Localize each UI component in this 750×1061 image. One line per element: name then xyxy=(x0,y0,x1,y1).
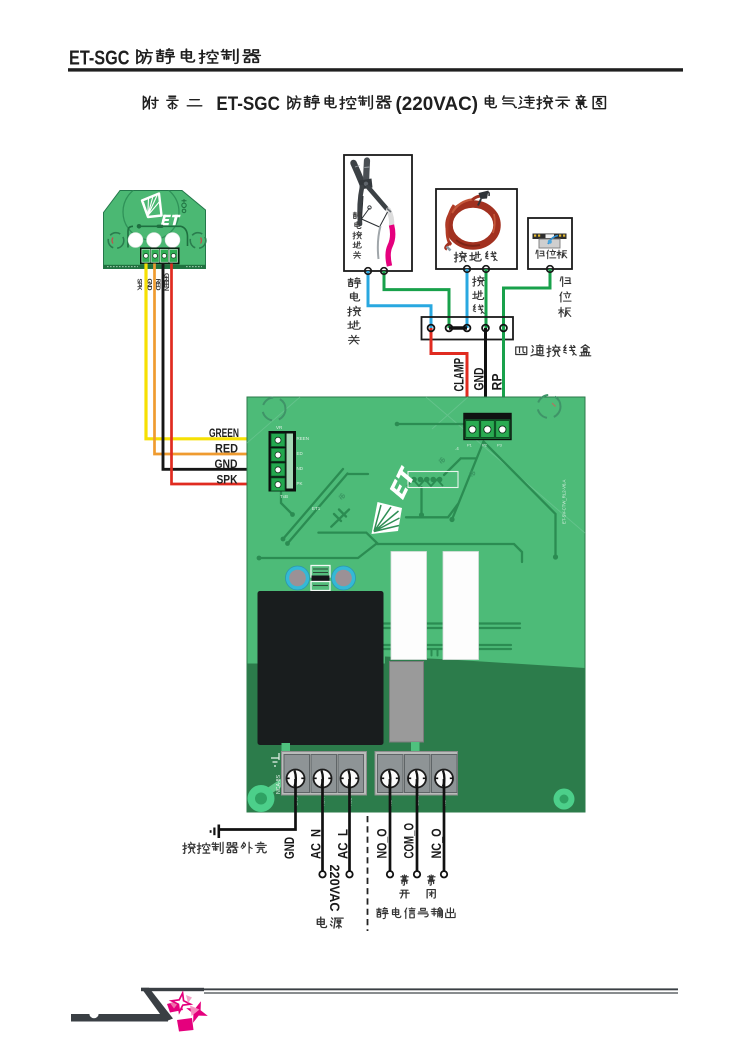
label connect to controller housing xyxy=(183,842,266,853)
footer thick bar xyxy=(71,1014,168,1022)
svg-text:NO_O: NO_O xyxy=(374,828,390,858)
label power source xyxy=(317,917,343,928)
svg-text:.4: .4 xyxy=(455,446,459,451)
wire yellow sensor SPK to PCB GREEN xyxy=(146,264,267,439)
wire AC_N down xyxy=(321,779,324,871)
svg-text:REEN: REEN xyxy=(297,436,310,441)
label four-way junction box xyxy=(516,345,591,357)
header rule xyxy=(68,68,683,71)
PCB dark lower band xyxy=(247,664,385,813)
wire COM down xyxy=(416,779,419,871)
silkscreen tiny texts xyxy=(276,425,567,524)
svg-text:GREEN: GREEN xyxy=(209,426,239,440)
svg-text:TxB: TxB xyxy=(280,494,288,499)
terminal cell xyxy=(284,755,310,793)
power terminal block frame xyxy=(282,752,367,796)
green stems xyxy=(282,743,291,753)
sensor LED 1 xyxy=(128,233,143,248)
wire green clamp to junction hole2 xyxy=(384,271,449,328)
chassis ground symbol xyxy=(211,825,219,839)
terminal screw xyxy=(435,770,453,788)
svg-text:ET-SGC: ET-SGC xyxy=(216,94,280,115)
wire NC down xyxy=(443,779,446,871)
PCB mounting hole bottom-left xyxy=(266,781,284,793)
terminal screw xyxy=(408,770,426,788)
sensor board bottom edge xyxy=(104,265,206,269)
label normally closed xyxy=(427,875,435,898)
sensor terminal block J1 xyxy=(141,248,180,264)
svg-text:RED: RED xyxy=(215,441,238,455)
junction hole xyxy=(482,325,489,332)
silkscreen outline box xyxy=(408,472,458,488)
terminal cell xyxy=(432,755,458,793)
junction jumper bar hole2-hole3 xyxy=(449,326,467,330)
terminal cell xyxy=(338,755,364,793)
box static grounding clamp xyxy=(344,155,412,271)
dashed separator xyxy=(367,816,369,931)
box grounding wire xyxy=(436,189,517,269)
svg-text:ET-SGC: ET-SGC xyxy=(69,46,130,69)
junction hole xyxy=(464,325,471,332)
footer diagonal xyxy=(141,988,173,1022)
main PCB board xyxy=(247,397,585,812)
svg-text:COM_O: COM_O xyxy=(401,823,417,859)
svg-text:ET-SV-CTW_RL2-V6.A: ET-SV-CTW_RL2-V6.A xyxy=(562,479,567,524)
sensor ET logo text xyxy=(161,215,181,225)
svg-text:P2: P2 xyxy=(482,443,488,448)
wire AC_L down xyxy=(348,779,351,871)
reset plate drawing xyxy=(533,234,567,249)
relay terminal block frame xyxy=(375,752,458,796)
terminal screw xyxy=(341,770,359,788)
terminal cell xyxy=(405,755,431,793)
PCB mounting ring top-right xyxy=(538,395,561,418)
wire red sensor GREEN to PCB SPK xyxy=(172,264,268,485)
label normally open xyxy=(400,875,409,898)
footer rule lines xyxy=(141,988,204,991)
svg-text:AC_L: AC_L xyxy=(335,829,351,859)
box reset plate xyxy=(528,218,572,269)
wire GND to chassis xyxy=(220,779,296,830)
terminal dot on ground-wire box xyxy=(483,266,490,273)
four-way junction box xyxy=(422,317,514,340)
ET logo sail on PCB xyxy=(372,502,403,534)
sensor trace above LEDs xyxy=(128,226,188,247)
wire green ground-wire to junction hole4 xyxy=(485,269,488,328)
sensor LED 2 xyxy=(147,233,162,248)
svg-text:GND: GND xyxy=(471,368,487,391)
terminal cell xyxy=(378,755,404,793)
label jing-dian-jie-di-jia column xyxy=(348,278,361,344)
PCB mounting hole bottom-right xyxy=(554,789,575,810)
clamp drawing xyxy=(354,161,393,267)
PCB silkscreen ground mark xyxy=(271,753,279,766)
svg-text:ND: ND xyxy=(297,466,304,471)
diode D1 xyxy=(311,566,330,578)
wire black sensor RED to PCB GND xyxy=(163,264,267,470)
sensor alarm board xyxy=(104,191,206,269)
sensor left mounting ring xyxy=(108,233,124,249)
PCB sheen diagonals xyxy=(247,397,585,533)
wire green junction hole5 to RP pin xyxy=(502,328,505,414)
junction hole xyxy=(500,325,507,332)
PCB left terminal J2 xyxy=(269,431,297,492)
sensor ET logo sail xyxy=(142,194,162,218)
terminal screw xyxy=(314,770,332,788)
terminal dot on reset plate box xyxy=(547,266,554,273)
junction hole xyxy=(428,325,435,332)
svg-text:GND: GND xyxy=(281,837,297,859)
wire green reset-plate to junction hole5 xyxy=(504,269,551,328)
sensor LED 3 xyxy=(165,233,180,248)
PCB top terminal CLAMP/GND/RP xyxy=(464,414,511,440)
wire blue clamp to junction hole1 xyxy=(368,271,431,328)
PCB traces xyxy=(259,424,556,656)
trace pads xyxy=(257,422,559,561)
pad crosses xyxy=(339,458,475,499)
svg-text:VR: VR xyxy=(276,425,283,430)
ET text on PCB xyxy=(390,465,415,500)
wire blue ground-wire to junction hole3 xyxy=(466,269,469,328)
subtitle appendix line xyxy=(143,96,201,109)
label jie-di-xian column xyxy=(473,276,485,313)
ground wire coil drawing xyxy=(446,191,497,251)
svg-text:NC_O: NC_O xyxy=(428,828,444,858)
wire black junction hole4 to GND pin xyxy=(484,328,487,414)
svg-text:PK: PK xyxy=(297,481,303,486)
heatsink gray block xyxy=(390,662,424,743)
svg-text:RP: RP xyxy=(489,374,505,391)
PCB mounting ring top-left xyxy=(263,398,286,421)
svg-text:P1: P1 xyxy=(467,443,473,448)
terminal dot on clamp box xyxy=(365,268,372,275)
svg-text:ET1: ET1 xyxy=(312,506,321,511)
label gui-wei-ban column xyxy=(559,277,571,317)
terminal screw xyxy=(381,770,399,788)
svg-text:SPK: SPK xyxy=(135,279,142,291)
electrolytic capacitor C2 xyxy=(332,566,356,590)
svg-text:P3: P3 xyxy=(497,443,503,448)
box2 label xyxy=(454,251,497,262)
terminal screw xyxy=(287,770,305,788)
transformer T1 xyxy=(258,591,384,745)
wire NO down xyxy=(389,779,392,871)
terminal dot on clamp box xyxy=(381,268,388,275)
svg-text:220VAC: 220VAC xyxy=(327,865,342,912)
wire orange sensor GND to PCB RED xyxy=(155,264,268,455)
wire red junction hole1 to CLAMP pin xyxy=(431,328,467,414)
svg-text:CLAMP: CLAMP xyxy=(451,358,467,392)
svg-text:GND: GND xyxy=(215,457,238,471)
electrolytic capacitor C1 xyxy=(286,566,310,590)
footer logo stars xyxy=(167,993,208,1031)
svg-text:SPK: SPK xyxy=(217,472,238,486)
box3 label xyxy=(536,250,567,259)
sensor right mounting ring xyxy=(190,233,206,249)
film capacitor white right xyxy=(443,552,479,660)
junction hole xyxy=(446,325,453,332)
terminal dot on ground-wire box xyxy=(464,266,471,273)
svg-text:(220VAC): (220VAC) xyxy=(396,94,479,115)
svg-text:ED: ED xyxy=(297,451,304,456)
box1 vertical label xyxy=(353,212,362,259)
svg-text:NCA-8S: NCA-8S xyxy=(276,774,282,794)
svg-text:AC_N: AC_N xyxy=(308,829,324,859)
label static signal output xyxy=(377,908,455,919)
terminal cell xyxy=(311,755,337,793)
sensor small cert mark xyxy=(182,199,187,213)
film capacitor white left xyxy=(391,552,427,660)
sensor logo circle xyxy=(123,184,179,240)
